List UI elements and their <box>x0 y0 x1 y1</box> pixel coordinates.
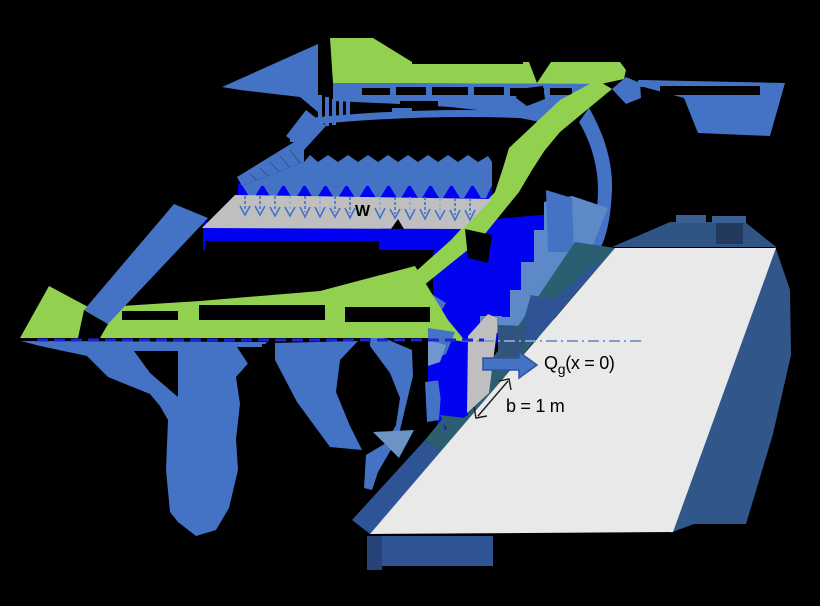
svg-text:b = 1 m: b = 1 m <box>506 396 564 416</box>
svg-text:W: W <box>355 203 371 220</box>
